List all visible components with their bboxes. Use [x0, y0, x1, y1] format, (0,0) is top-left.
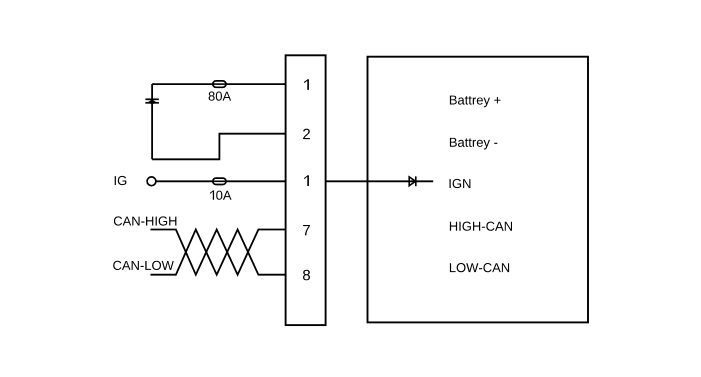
- node label Battrey +: [450, 96, 501, 108]
- node label IG: [115, 176, 127, 185]
- pin 8 label: [303, 270, 310, 281]
- wire CAN-LOW twisted pair to pin 8: [151, 230, 286, 275]
- diode D1: [409, 176, 416, 186]
- ECU box U1: [368, 57, 589, 323]
- wire IG terminal to pin 1 (10A feed): [156, 180, 286, 182]
- node label Battrey -: [450, 138, 497, 150]
- value label 80A: [209, 92, 232, 101]
- node label CAN-LOW: [113, 261, 174, 270]
- fuse F2 10A: [213, 178, 226, 184]
- node label LOW-CAN: [450, 263, 509, 272]
- wire battery positive to pin 1 (80A feed): [152, 83, 286, 85]
- battery B1: [145, 84, 159, 159]
- wire pin 1 (middle) to IGN node: [326, 180, 434, 182]
- pin 1 label (top): [304, 79, 309, 90]
- pin 1 label (middle): [304, 175, 309, 186]
- connector J1 body: [286, 55, 326, 325]
- fuse F1 80A: [213, 81, 226, 87]
- node label CAN-HIGH: [114, 216, 176, 225]
- pin 2 label: [303, 129, 310, 140]
- wire battery negative to pin 2 (stepped): [152, 134, 286, 160]
- pin 7 label: [303, 225, 310, 235]
- node label HIGH-CAN: [450, 222, 512, 231]
- terminal IG (open circle): [147, 177, 156, 186]
- wire CAN-HIGH twisted pair to pin 7: [151, 230, 286, 275]
- value label 10A: [210, 190, 232, 199]
- node label IGN: [450, 179, 471, 188]
